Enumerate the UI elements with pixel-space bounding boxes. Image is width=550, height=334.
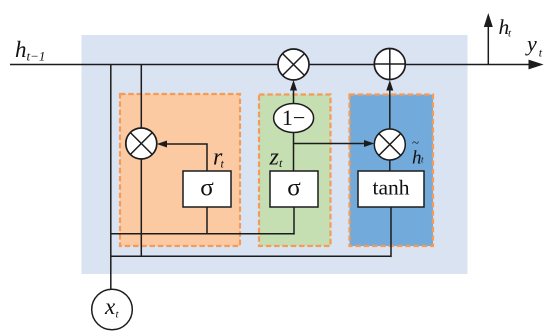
update-gate green box bbox=[259, 95, 331, 247]
wire sigma-z output stub bbox=[293, 206, 295, 235]
wire vertical through reset multiply bbox=[140, 65, 142, 257]
wire r_t corner into reset multiply bbox=[160, 144, 207, 172]
reset-gate orange box bbox=[120, 94, 240, 246]
x_t input circle bbox=[92, 289, 133, 330]
label h-tilde_t bbox=[412, 135, 424, 169]
wire bottom bus B bbox=[111, 255, 391, 257]
label r_t bbox=[213, 145, 225, 171]
svg-text:σ: σ bbox=[200, 175, 214, 202]
wire sigma-r output stub bbox=[206, 206, 208, 234]
label h_{t-1} bbox=[15, 37, 45, 64]
multiply node on h line (update gate) bbox=[278, 49, 309, 80]
wire candidate multiply down to tanh bbox=[389, 160, 391, 173]
wire tanh input from bus B bbox=[390, 206, 392, 257]
wire main h line bbox=[10, 64, 535, 66]
sigma-r box bbox=[183, 171, 231, 207]
plus node on h line bbox=[374, 49, 405, 80]
label h_t top right bbox=[499, 15, 513, 40]
candidate blue box bbox=[350, 95, 434, 247]
arrowhead into reset multiply bbox=[157, 141, 167, 148]
arrowhead h_t bbox=[484, 13, 493, 27]
wire bottom bus A bbox=[111, 233, 294, 235]
one-minus ellipse bbox=[274, 104, 314, 133]
arrowhead y_t bbox=[529, 60, 544, 70]
wire h_t output arrow bbox=[487, 17, 489, 65]
svg-text:t: t bbox=[539, 46, 543, 60]
svg-text:z: z bbox=[269, 145, 280, 171]
label y_t bbox=[525, 31, 543, 60]
sigma-z box bbox=[270, 171, 318, 207]
arrowhead into plus bbox=[386, 80, 393, 91]
arrowhead into update multiply bbox=[290, 80, 297, 91]
label z_t bbox=[269, 145, 284, 171]
wire one-minus up to update multiply bbox=[293, 84, 295, 105]
svg-text:t: t bbox=[508, 28, 512, 40]
svg-text:tanh: tanh bbox=[372, 176, 409, 200]
svg-text:t−1: t−1 bbox=[27, 49, 46, 64]
wire candidate multiply up to plus bbox=[389, 84, 391, 130]
svg-text:y: y bbox=[525, 31, 537, 56]
candidate multiply node bbox=[374, 129, 405, 160]
svg-text:1−: 1− bbox=[282, 105, 305, 130]
wire vertical from h line to x_t bbox=[110, 65, 112, 291]
tanh box bbox=[358, 171, 424, 207]
svg-text:σ: σ bbox=[287, 175, 301, 202]
svg-text:x: x bbox=[104, 294, 116, 319]
svg-text:h: h bbox=[15, 37, 27, 62]
arrowhead into candidate multiply bbox=[364, 140, 374, 147]
reset multiply node bbox=[126, 128, 157, 159]
wire z junction to candidate multiply bbox=[294, 143, 372, 145]
background panel bbox=[82, 35, 468, 274]
wire one-minus down to sigma-z bbox=[293, 130, 295, 172]
